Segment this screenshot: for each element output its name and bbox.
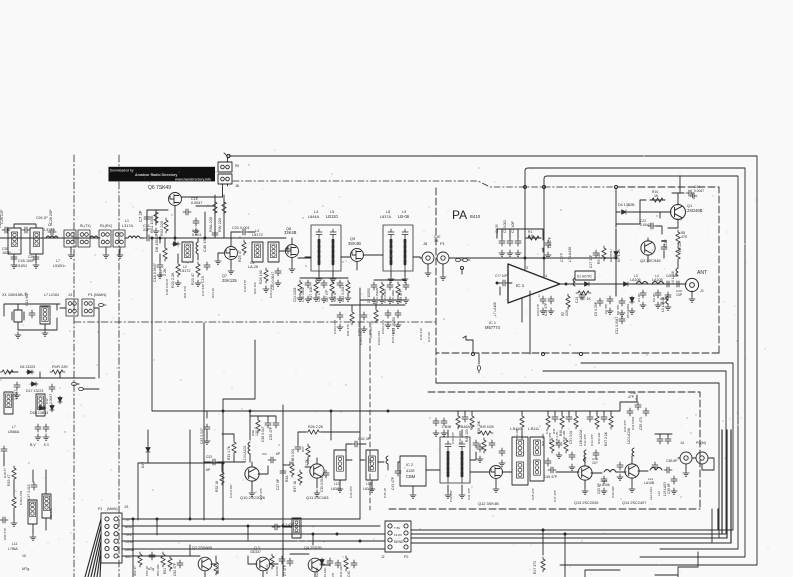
svg-text:ANT: ANT (697, 270, 707, 276)
wire top rail from TP hook to right edge (229, 156, 757, 565)
svg-text:C1B 0.0047: C1B 0.0047 (165, 278, 169, 295)
relay block 3 (99, 230, 111, 247)
svg-text:D1 H079C: D1 H079C (577, 275, 593, 279)
inductor L7 coil (40, 306, 50, 324)
svg-text:10?: 10? (592, 461, 598, 465)
svg-text:D2 H03U: D2 H03U (609, 249, 613, 262)
verticals from rails up into TX strip (718, 430, 731, 543)
wire PA input rails (497, 229, 543, 252)
svg-text:RVR 22K: RVR 22K (52, 365, 68, 369)
svg-text:C44 47P: C44 47P (349, 486, 353, 498)
svg-text:R52 47: R52 47 (133, 566, 137, 576)
svg-text:R18 47: R18 47 (3, 468, 7, 478)
svg-text:C20 0.04: C20 0.04 (269, 285, 273, 298)
inductor L13 L8172 can (366, 450, 378, 480)
extra bottom forest components (138, 552, 142, 567)
svg-text:J2: J2 (381, 555, 385, 559)
capacitor C43 47P TX (395, 468, 401, 476)
capacitor C12 56P (29, 310, 35, 318)
resistor R01 100K (154, 210, 158, 225)
IF can L8111 left edge (530, 437, 544, 481)
svg-text:C30 25P: C30 25P (449, 490, 453, 502)
svg-text:C35 470: C35 470 (639, 417, 643, 430)
svg-text:C35 47P: C35 47P (259, 488, 263, 500)
inductor L21 LA106 (650, 468, 662, 471)
RX box bottom dash-dot line y=322 (74, 321, 436, 323)
transistor symbol small mid-left (58, 396, 62, 404)
svg-text:C32 47P: C32 47P (583, 434, 587, 446)
wire main TX rail y=411 (212, 395, 637, 411)
resistor R5 1K (576, 291, 591, 295)
svg-text:C6 2P: C6 2P (652, 293, 656, 302)
svg-text:C2 0.001: C2 0.001 (503, 220, 507, 233)
svg-text:C43 0.047: C43 0.047 (333, 319, 337, 334)
svg-text:D8 13553: D8 13553 (154, 234, 159, 252)
svg-text:R27 100: R27 100 (309, 287, 313, 300)
junction dots main line (174, 237, 176, 239)
scan speckle noise (0, 150, 768, 575)
wire Q6 stage rails (147, 195, 224, 238)
svg-text:R48: R48 (559, 430, 563, 436)
diode D8 13553 (172, 242, 180, 246)
svg-text:C27 47P: C27 47P (325, 290, 329, 302)
svg-text:0.001: 0.001 (192, 233, 201, 237)
black watermark banner 'Amateur Radio Directory' (109, 167, 216, 182)
wire IC2 leads (388, 462, 440, 492)
capacitor C4 2P (640, 290, 646, 298)
transistor Q1 2SD468 (671, 205, 686, 220)
transistor Q11 2SC1675 (310, 464, 324, 478)
transistor Q7 2SK125 (225, 247, 238, 260)
fan wires into P3 (85, 519, 101, 577)
connector P3 MAIN (101, 513, 122, 563)
wire Q10 feed y=463 (138, 463, 222, 520)
svg-text:L22: L22 (657, 491, 661, 496)
svg-text:R19 47: R19 47 (7, 475, 11, 486)
resistor R1 0.5 (526, 236, 541, 240)
relay block 4 (113, 230, 125, 247)
svg-text:1: 1 (538, 294, 540, 298)
svg-text:R28 4P: R28 4P (333, 291, 337, 302)
capacitor C21 0.001 (240, 229, 248, 235)
inductor L7 at IC1 out (573, 278, 575, 286)
svg-text:www.hamdirectory.info: www.hamdirectory.info (174, 178, 211, 182)
svg-text:L1B LA10A: L1B LA10A (579, 429, 583, 446)
svg-text:C46 0.015: C46 0.015 (19, 490, 23, 505)
svg-text:LA10B: LA10B (644, 481, 655, 485)
svg-text:L1: L1 (125, 219, 129, 223)
capacitor C8 47P (545, 240, 551, 248)
svg-text:P3: P3 (98, 507, 102, 511)
components right of Q4 (320, 558, 324, 566)
ground left bottom (11, 520, 17, 526)
svg-text:R39 10K: R39 10K (477, 420, 481, 434)
ground crystal (15, 332, 21, 338)
svg-text:10 10C: 10 10C (323, 568, 327, 577)
inductor L7 LB66A (36, 394, 45, 416)
wire J6 to rails (223, 158, 228, 197)
diode bottom left column (146, 446, 150, 454)
svg-text:C52 47P: C52 47P (173, 562, 177, 576)
svg-text:C27 6P: C27 6P (276, 478, 280, 490)
diode D10 vertical (50, 404, 54, 412)
resistor R51 10K (168, 556, 172, 571)
resistor R33 4.7K (232, 440, 236, 455)
resistor forest before Q13 (550, 438, 554, 453)
capacitor C16 0.001 (193, 218, 199, 226)
svg-text:IC 2: IC 2 (406, 463, 413, 467)
svg-text:C8 47P: C8 47P (616, 305, 620, 315)
wire step into TX rail (223, 340, 255, 519)
svg-text:2SD46B: 2SD46B (687, 208, 703, 213)
svg-text:R17 470: R17 470 (533, 561, 537, 574)
svg-text:M57774: M57774 (485, 325, 501, 330)
svg-text:L4: L4 (314, 210, 318, 214)
component forest under TX rail x455-475 (456, 414, 460, 429)
svg-text:C7 TP: C7 TP (560, 253, 564, 262)
vertical dashed x=370 (369, 322, 371, 510)
inductor L20 LA10A (632, 448, 634, 456)
capacitor C14 22P on line (144, 235, 152, 241)
svg-text:J4: J4 (680, 441, 684, 445)
svg-text:C31 0.04: C31 0.04 (569, 431, 573, 444)
left edge caps (1, 446, 7, 454)
svg-text:Q12 3SK4B: Q12 3SK4B (478, 501, 499, 506)
svg-text:L7 LA106: L7 LA106 (493, 302, 497, 316)
wire hook at start of top rail (227, 154, 230, 157)
wire Q10 stage (218, 454, 268, 490)
rail junction dots (156, 518, 158, 520)
RF plug P1 (437, 252, 449, 264)
svg-text:C40 47P: C40 47P (451, 432, 455, 444)
capacitor C18 0.0047 (157, 262, 163, 270)
capacitor C39 6P (671, 476, 677, 484)
svg-text:3: 3 (526, 266, 528, 270)
svg-text:L317A: L317A (122, 224, 134, 228)
svg-text:Q14 2SC2407: Q14 2SC2407 (622, 501, 646, 505)
svg-text:7/8: 7/8 (331, 573, 335, 577)
svg-text:100: 100 (255, 430, 259, 436)
wire TX out (678, 458, 714, 470)
svg-text:X1 10M15B-T: X1 10M15B-T (2, 292, 27, 297)
svg-text:C21 0.001: C21 0.001 (232, 226, 250, 230)
inductor L2 L5172 can (182, 242, 193, 262)
svg-text:C4? 0.015: C4? 0.015 (27, 484, 31, 500)
svg-text:L10 LA102: L10 LA102 (243, 446, 247, 462)
ground jacks (425, 270, 431, 276)
wire drops from PA top edge (525, 188, 616, 296)
transistor Q14 2SC2407 (625, 464, 639, 478)
svg-text:L786A: L786A (8, 547, 19, 551)
wire IC1 output (560, 283, 620, 285)
vertical dash-dot shield line x=119 (118, 155, 120, 577)
capacitor C20 13P (674, 281, 682, 287)
svg-text:0.5: 0.5 (528, 234, 533, 238)
svg-text:L7 L2164: L7 L2164 (44, 293, 59, 297)
svg-text:IC 1: IC 1 (516, 283, 525, 288)
svg-text:R26 100: R26 100 (259, 270, 263, 284)
ground row under Q6 (157, 272, 163, 278)
capacitor C47 0.015 (31, 482, 37, 490)
wire J2 to right rails (411, 530, 731, 543)
capacitor C24 0.0047 (686, 190, 694, 196)
svg-text:0.0047: 0.0047 (191, 201, 202, 205)
capacitor C35 47P (273, 420, 279, 428)
capacitor C27 4P vert (280, 468, 286, 476)
svg-text:J/1: J/1 (124, 505, 129, 509)
svg-text:L844A: L844A (308, 215, 319, 219)
transistor Q9 3SK48 (351, 249, 364, 262)
wire left bottom (4, 454, 46, 534)
svg-text:C42 4P: C42 4P (358, 437, 371, 441)
svg-text:CBM: CBM (406, 474, 416, 479)
svg-text:L5172: L5172 (180, 269, 190, 273)
svg-text:C40: C40 (347, 571, 351, 577)
svg-text:13.8V: 13.8V (394, 533, 402, 537)
svg-text:RL(RX): RL(RX) (100, 224, 112, 228)
svg-text:R53 10K: R53 10K (156, 564, 160, 576)
svg-text:L51B1: L51B1 (53, 264, 64, 268)
svg-text:C34 0.001: C34 0.001 (631, 416, 635, 430)
ground relay (68, 252, 74, 258)
svg-text:C16 41P: C16 41P (419, 328, 423, 340)
wire to Q6 base node (152, 238, 175, 243)
svg-text:0.0047: 0.0047 (694, 189, 704, 193)
svg-text:6P: 6P (206, 468, 211, 472)
svg-text:L7: L7 (56, 259, 60, 263)
ground Q7 (228, 268, 234, 274)
capacitor C25 22P (2, 227, 10, 233)
svg-text:C25 47P: C25 47P (531, 488, 535, 500)
svg-text:R20 2.2K: R20 2.2K (171, 272, 175, 288)
svg-text:R24 1K: R24 1K (211, 287, 215, 298)
capacitor C16 0.0047 (183, 209, 191, 215)
svg-text:L.B111: L.B111 (528, 427, 539, 431)
resistor R50 22 (214, 560, 218, 575)
resistor left bottom (12, 495, 16, 510)
resistor R10 1K (650, 198, 665, 202)
wire PA verticals from top rail (497, 229, 525, 238)
resistor R into edge (0, 370, 15, 374)
svg-text:DY 152R0: DY 152R0 (367, 288, 371, 303)
ground mid cluster (14, 392, 20, 398)
svg-text:C10: C10 (575, 297, 579, 303)
diode D5 CER91 (630, 296, 634, 304)
svg-text:C.3 4TP: C.3 4TP (282, 523, 295, 527)
RF jack J8 (422, 252, 434, 264)
svg-text:Q4 2SD39: Q4 2SD39 (304, 546, 322, 550)
transistor Q8 33K48 (286, 245, 299, 258)
svg-text:C29 0.001: C29 0.001 (381, 319, 385, 334)
svg-text:MTg: MTg (22, 567, 29, 571)
wire third nested rail right side (544, 176, 738, 549)
svg-text:C23 47P: C23 47P (536, 304, 540, 316)
svg-text:J6: J6 (235, 184, 239, 188)
inductor L10 LA102 (248, 442, 250, 454)
resistor R49 100K horizontal (478, 431, 493, 435)
capacitor C21 0.0047 (619, 316, 625, 324)
capacitor C21 6P (268, 457, 276, 463)
inductor coil left bottom 2 (42, 494, 51, 518)
components left of Q4 (279, 556, 285, 564)
svg-text:R31 47K: R31 47K (346, 323, 350, 336)
wire Q4 bottom (283, 527, 330, 577)
svg-text:R21 47K: R21 47K (183, 285, 187, 298)
capacitor C52 47P (177, 560, 183, 568)
wire bottom rail 4 to connector (412, 509, 712, 543)
capacitor C43 0.047 wire (206, 411, 208, 438)
capacitor C26 1P (22, 227, 30, 233)
svg-text:Q11 2SC163: Q11 2SC163 (306, 495, 329, 500)
diode D18 13833 (38, 406, 46, 410)
capacitor bank C1 C2 C3 at PA input (499, 238, 505, 246)
svg-text:B.V: B.V (30, 443, 36, 447)
svg-text:L6 LA06: L6 LA06 (671, 271, 675, 284)
inductor bottom mid (292, 518, 301, 538)
capacitor C42 4P (352, 441, 360, 447)
relay RL1 RX/TX block 1 (64, 230, 76, 247)
svg-text:3SK4B: 3SK4B (348, 241, 361, 246)
resistor R20 2.2K (176, 262, 180, 277)
inductor L5 LA10B (666, 296, 668, 304)
capacitor C39 0.0047 (323, 470, 329, 478)
svg-text:R02 220: R02 220 (159, 220, 164, 236)
junction and resistor R17 470 (542, 529, 544, 531)
svg-text:R50 22: R50 22 (216, 563, 220, 574)
svg-text:R26 2.2K: R26 2.2K (308, 425, 324, 429)
diode D3 at output (622, 282, 630, 286)
svg-text:C43 47P: C43 47P (391, 476, 395, 490)
svg-text:C28 0.04V: C28 0.04V (359, 329, 363, 345)
component forest under IF can 1 (298, 280, 302, 295)
resistor R25 47 (242, 240, 246, 255)
plug pair mid (72, 382, 79, 385)
IC2 block (400, 456, 426, 486)
wire filter tails (14, 224, 36, 262)
vertical dash-dot shield line x=74 (73, 155, 75, 577)
svg-text:C3B 6P: C3B 6P (666, 459, 678, 463)
svg-text:22P: 22P (143, 227, 150, 232)
wire crystal row (4, 304, 60, 330)
transistor Q6 7SK49 (169, 193, 182, 206)
svg-text:C19 47P: C19 47P (243, 280, 247, 292)
resistor R37 1K (298, 470, 302, 485)
TP test point hook (463, 336, 473, 353)
svg-text:R32 1K: R32 1K (215, 480, 219, 492)
svg-text:R22 100: R22 100 (253, 282, 257, 294)
svg-text:0.0047: 0.0047 (640, 223, 651, 227)
svg-text:L6: L6 (48, 223, 52, 227)
capacitor pair under mid (35, 424, 41, 432)
wire cluster bus y=305 (330, 300, 405, 310)
svg-text:P2(M): P2(M) (696, 441, 706, 445)
wire Q7 drain top (231, 232, 255, 246)
svg-text:RL(TX): RL(TX) (80, 224, 91, 228)
wire D4 node (616, 212, 671, 224)
inductor L3 L5172 (252, 242, 263, 262)
resistor R26 100 (264, 268, 268, 283)
wire stubs under Q6 (160, 238, 178, 262)
svg-text:10: 10 (22, 554, 26, 558)
resistor R5b (602, 246, 606, 261)
svg-text:R9 22: R9 22 (678, 243, 682, 252)
svg-text:L.B110: L.B110 (510, 427, 521, 431)
svg-text:R25 47: R25 47 (238, 250, 242, 262)
dash-dot line J6 to PA box (233, 181, 614, 187)
wire Q3 bottom (248, 556, 278, 577)
vertical wire x=360 cluster to TX rail (359, 288, 361, 519)
svg-text:C35 47P: C35 47P (269, 426, 273, 440)
resistor R35 4.7K (306, 444, 310, 459)
svg-text:L.B3B: L.B3B (442, 425, 452, 429)
svg-text:C?? 10P: C?? 10P (495, 274, 507, 278)
svg-text:C17 33P: C17 33P (201, 284, 205, 296)
connector J2/P2 bottom (385, 521, 411, 552)
capacitor C29 100P (33, 254, 39, 262)
svg-text:C17 6P: C17 6P (427, 332, 431, 342)
svg-text:L20 LA10A: L20 LA10A (627, 427, 631, 444)
svg-text:R0A 220: R0A 220 (208, 216, 213, 232)
diode D17 13223 (30, 382, 38, 386)
wire relay junctions (58, 236, 128, 252)
resistor R50 100 on rail (520, 414, 524, 429)
svg-text:C24 0.001: C24 0.001 (293, 287, 297, 302)
svg-text:Q13 2SC2026: Q13 2SC2026 (574, 501, 598, 505)
svg-text:R3 100: R3 100 (597, 253, 601, 264)
wire IC1 pin4 down (522, 291, 530, 354)
wire Q11 stage (283, 411, 360, 488)
bottom mid verticals (133, 519, 313, 577)
plug under dashed line (478, 354, 480, 364)
resistor R2 220 (566, 294, 570, 309)
svg-text:R29 47P: R29 47P (399, 289, 403, 303)
svg-text:R43 330: R43 330 (597, 432, 601, 444)
svg-text:D13 152R0: D13 152R0 (375, 287, 379, 303)
wire IF outputs (305, 257, 420, 276)
svg-text:L5 LA10B: L5 LA10B (661, 296, 665, 312)
transistor Q13 2SC2026 (578, 466, 592, 480)
inductor tuned can L2 (30, 228, 43, 254)
svg-text:R49 100K: R49 100K (480, 425, 495, 429)
svg-text:L22 LA03: L22 LA03 (649, 487, 653, 500)
svg-text:D13 13223: D13 13223 (391, 328, 395, 343)
svg-text:C24 50: C24 50 (315, 567, 319, 577)
capacitor C20 0.0047 (275, 268, 281, 276)
svg-text:220: 220 (565, 310, 569, 316)
svg-text:(MAIN): (MAIN) (107, 507, 117, 511)
svg-text:C26 20P: C26 20P (49, 209, 53, 224)
svg-text:R3A: R3A (285, 475, 289, 482)
svg-text:C24 50: C24 50 (275, 566, 279, 576)
svg-text:LB-06: LB-06 (398, 214, 410, 219)
wire Q14 (616, 456, 648, 486)
capacitor C8 47P mid (619, 298, 625, 306)
svg-text:C45 1P: C45 1P (383, 488, 387, 498)
ground front filter (11, 262, 17, 268)
svg-text:J1: J1 (700, 289, 704, 293)
svg-text:4: 4 (545, 274, 547, 278)
ground TX chain (556, 452, 562, 458)
capacitor C6 2P (655, 290, 661, 298)
wire RX input line y=238 (0, 237, 100, 239)
svg-text:NY 1.2K: NY 1.2K (617, 249, 621, 262)
extra small caps TX strip (433, 418, 439, 426)
capacitor C45 47P (548, 467, 556, 473)
svg-text:DEND: DEND (394, 540, 404, 544)
coax plugs (456, 258, 463, 261)
wire connector to down-run (60, 308, 99, 378)
caps above Q14 (657, 436, 663, 444)
